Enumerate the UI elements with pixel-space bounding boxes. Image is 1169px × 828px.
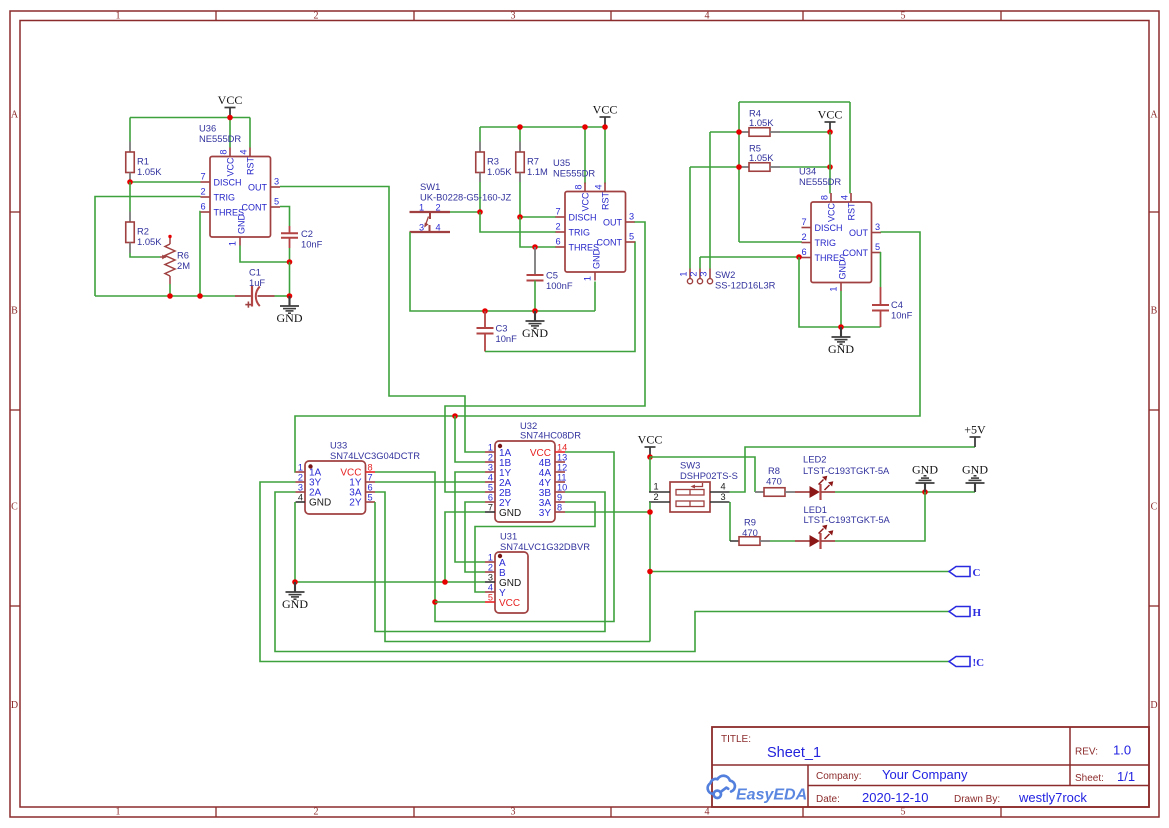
svg-text:Drawn By:: Drawn By: xyxy=(954,794,1000,805)
svg-text:2: 2 xyxy=(200,187,205,197)
led LED2 xyxy=(795,491,810,493)
svg-text:6: 6 xyxy=(368,483,373,493)
wire VCC rail circuit 1 xyxy=(130,117,250,119)
svg-text:1: 1 xyxy=(488,553,493,563)
svg-text:SW3: SW3 xyxy=(680,460,700,471)
junction VCC1 xyxy=(227,115,233,121)
svg-text:5: 5 xyxy=(368,493,373,503)
junction R6-gnd rail xyxy=(167,293,173,299)
svg-text:3: 3 xyxy=(419,223,424,233)
svg-text:C3: C3 xyxy=(496,323,508,334)
svg-text:Your Company: Your Company xyxy=(882,767,968,782)
svg-text:R6: R6 xyxy=(177,250,189,261)
svg-text:RST: RST xyxy=(846,202,856,221)
svg-text:R9: R9 xyxy=(744,517,756,528)
svg-text:8: 8 xyxy=(820,195,830,200)
svg-text:OUT: OUT xyxy=(603,218,623,228)
svg-text:SW2: SW2 xyxy=(715,269,735,280)
svg-text:LED2: LED2 xyxy=(803,454,826,465)
svg-text:4: 4 xyxy=(720,482,725,492)
svg-text:D: D xyxy=(11,700,18,711)
ground GND3 xyxy=(840,327,842,337)
junction LED gnd xyxy=(922,489,928,495)
wire ground rail circuit 1 xyxy=(95,295,235,297)
svg-text:2: 2 xyxy=(488,453,493,463)
svg-text:Sheet_1: Sheet_1 xyxy=(767,745,821,761)
svg-text:CONT: CONT xyxy=(597,238,623,248)
svg-text:SW1: SW1 xyxy=(420,181,440,192)
svg-text:OUT: OUT xyxy=(849,228,869,238)
easyeda logo xyxy=(708,776,735,798)
svg-text:GND: GND xyxy=(912,463,938,477)
wire SW3.2 net down to C xyxy=(649,502,651,642)
junction R4 right VCC3 xyxy=(827,129,833,135)
svg-text:Date:: Date: xyxy=(816,794,840,805)
wire SW1.3 to ground rail xyxy=(410,232,595,311)
ground GND logic xyxy=(294,582,296,592)
junction C5-THRES xyxy=(532,244,538,250)
wire C2 to ground rail xyxy=(289,262,291,296)
svg-text:GND: GND xyxy=(499,508,521,519)
resistor R8 xyxy=(755,491,764,493)
wire SW3.3 to R9 xyxy=(729,502,731,541)
junction R5 right xyxy=(827,164,833,170)
svg-text:VCC: VCC xyxy=(638,433,663,447)
svg-text:2: 2 xyxy=(689,271,699,276)
svg-text:6: 6 xyxy=(200,202,205,212)
ground GND4 xyxy=(924,483,926,492)
junction U33 GND net xyxy=(292,579,298,585)
svg-text:5: 5 xyxy=(629,232,634,242)
svg-text:GND: GND xyxy=(236,214,246,234)
svg-text:6: 6 xyxy=(555,237,560,247)
title block xyxy=(712,727,1149,807)
wire GND pin1 U34 xyxy=(840,291,842,327)
wire TRIG U36 xyxy=(95,197,201,297)
wire LED2 to GND xyxy=(835,491,975,493)
junction THRES-gnd rail xyxy=(197,293,203,299)
junction U32 GND net xyxy=(442,579,448,585)
junction pin8 U35 xyxy=(582,124,588,130)
svg-text:OUT: OUT xyxy=(248,183,268,193)
svg-text:EasyEDA: EasyEDA xyxy=(736,787,807,804)
svg-text:4: 4 xyxy=(594,184,604,189)
junction C flag net xyxy=(647,569,653,575)
wire CONT U36 to C2 xyxy=(280,207,290,227)
svg-text:7: 7 xyxy=(200,172,205,182)
wire U32.GND down xyxy=(445,512,485,582)
svg-text:NE555DR: NE555DR xyxy=(199,133,241,144)
wire DISCH U35 xyxy=(520,216,556,218)
wire VCC to U31.VCC xyxy=(435,601,485,603)
ground GND1 xyxy=(288,296,290,306)
wire OUT U34 long net to U33.1A xyxy=(295,232,920,472)
svg-text:DSHP02TS-S: DSHP02TS-S xyxy=(680,470,738,481)
svg-text:U34: U34 xyxy=(799,166,816,177)
svg-text:SS-12D16L3R: SS-12D16L3R xyxy=(715,280,776,291)
junction VCC2 xyxy=(602,124,608,130)
wire SW3.4 to +5V rail xyxy=(730,447,976,492)
junction U31 VCC xyxy=(432,599,438,605)
svg-text:2: 2 xyxy=(314,807,319,818)
vcc flag VCC3 xyxy=(829,122,831,132)
svg-text:7: 7 xyxy=(368,473,373,483)
svg-text:1.05K: 1.05K xyxy=(487,166,512,177)
svg-text:1: 1 xyxy=(419,203,424,213)
svg-text:1.05K: 1.05K xyxy=(749,152,774,163)
svg-text:B: B xyxy=(1151,306,1158,317)
svg-text:100nF: 100nF xyxy=(546,280,573,291)
wire GND pin1 U36 xyxy=(240,246,290,263)
wire U32.2Y to U31.B xyxy=(465,502,485,572)
wire U33.2A to H route xyxy=(275,492,949,652)
wire DISCH U36 xyxy=(130,181,201,183)
junction C2-pin1 xyxy=(287,259,293,265)
svg-text:UK-B0228-G5-160-JZ: UK-B0228-G5-160-JZ xyxy=(420,192,511,203)
resistor R4 xyxy=(710,131,739,133)
junction C3 rail xyxy=(482,308,488,314)
svg-text:4: 4 xyxy=(298,493,303,503)
svg-text:SN74HC08DR: SN74HC08DR xyxy=(520,430,581,441)
capacitor C3 xyxy=(484,311,486,328)
svg-text:8: 8 xyxy=(557,503,562,513)
wire U33.2Y to U32.3B xyxy=(375,492,605,632)
wire VCC4 to R8 xyxy=(650,457,755,492)
svg-text:10nF: 10nF xyxy=(496,333,518,344)
svg-text:GND: GND xyxy=(962,463,988,477)
wire pin8 U35 xyxy=(584,127,586,184)
svg-text:2: 2 xyxy=(555,222,560,232)
wire pin4 U36 xyxy=(249,118,251,148)
junction gnd rail circuit3 xyxy=(838,324,844,330)
junction R7-DISCH xyxy=(517,214,523,220)
svg-text:11: 11 xyxy=(557,473,567,483)
svg-text:NE555DR: NE555DR xyxy=(799,176,841,187)
svg-text:DISCH: DISCH xyxy=(569,213,597,223)
svg-text:3: 3 xyxy=(875,222,880,232)
svg-text:DISCH: DISCH xyxy=(214,178,242,188)
switch SW3 DSHP02TS-S xyxy=(670,482,710,512)
wire U33.1Y to U32.2A xyxy=(375,481,485,483)
capacitor C5 xyxy=(534,247,536,275)
svg-text:1: 1 xyxy=(829,286,839,291)
svg-text:3Y: 3Y xyxy=(539,508,552,519)
wire VCC rail circuit 3 xyxy=(739,101,850,103)
svg-text:VCC: VCC xyxy=(499,598,520,609)
switch SW1 xyxy=(410,211,451,213)
svg-text:5: 5 xyxy=(274,197,279,207)
svg-text:TITLE:: TITLE: xyxy=(721,734,751,745)
wire U33.GND down xyxy=(294,502,296,582)
svg-text:3: 3 xyxy=(488,573,493,583)
svg-text:Company:: Company: xyxy=(816,771,862,782)
svg-text:VCC: VCC xyxy=(580,192,590,212)
wire GND pin1 U35 xyxy=(594,282,596,312)
svg-text:VCC: VCC xyxy=(225,157,235,177)
svg-text:7: 7 xyxy=(801,217,806,227)
wire OUT U36 to U32.1A xyxy=(280,187,485,453)
svg-text:2Y: 2Y xyxy=(349,498,362,509)
svg-text:VCC: VCC xyxy=(218,93,243,107)
svg-text:Sheet:: Sheet: xyxy=(1075,773,1104,784)
svg-text:LTST-C193TGKT-5A: LTST-C193TGKT-5A xyxy=(804,514,891,525)
svg-text:4: 4 xyxy=(435,223,440,233)
svg-text:4: 4 xyxy=(840,195,850,200)
svg-text:GND: GND xyxy=(309,498,331,509)
net flag !C xyxy=(949,657,970,667)
svg-text:A: A xyxy=(11,110,19,121)
svg-text:REV:: REV: xyxy=(1075,747,1098,758)
svg-text:3: 3 xyxy=(274,177,279,187)
svg-text:C4: C4 xyxy=(891,299,903,310)
svg-text:R8: R8 xyxy=(768,465,780,476)
svg-text:3: 3 xyxy=(298,483,303,493)
svg-text:A: A xyxy=(1150,110,1158,121)
svg-text:VCC: VCC xyxy=(818,108,843,122)
svg-text:10nF: 10nF xyxy=(301,239,323,250)
resistor R9 xyxy=(739,537,760,546)
svg-text:1.05K: 1.05K xyxy=(137,236,162,247)
svg-text:NE555DR: NE555DR xyxy=(553,168,595,179)
svg-text:1: 1 xyxy=(116,807,121,818)
junction R7 top xyxy=(517,124,523,130)
vcc flag VCC2 xyxy=(604,117,606,127)
svg-text:TRIG: TRIG xyxy=(815,238,837,248)
led LED1 xyxy=(770,540,795,542)
svg-text:VCC: VCC xyxy=(593,103,618,117)
svg-text:!C: !C xyxy=(973,657,985,669)
wire R7 to THRES U35 xyxy=(520,217,556,247)
svg-text:5: 5 xyxy=(901,807,906,818)
svg-text:7: 7 xyxy=(555,207,560,217)
svg-text:8: 8 xyxy=(574,184,584,189)
resistor R5 xyxy=(690,166,739,168)
wire branch to U32.1B xyxy=(455,416,485,462)
capacitor C2 xyxy=(289,226,291,233)
svg-text:R3: R3 xyxy=(487,156,499,167)
svg-text:C: C xyxy=(11,502,18,513)
svg-text:5: 5 xyxy=(488,483,493,493)
svg-text:SN74LVC1G32DBVR: SN74LVC1G32DBVR xyxy=(500,541,590,552)
vcc flag VCC4 xyxy=(649,447,651,457)
svg-text:1.05K: 1.05K xyxy=(137,166,162,177)
capacitor C4 xyxy=(880,287,882,305)
wire U32.3A to U31.Y xyxy=(475,502,595,592)
svg-text:RST: RST xyxy=(600,191,610,210)
svg-text:3: 3 xyxy=(511,807,516,818)
op-amp U36 NE555DR xyxy=(210,157,271,238)
svg-text:RST: RST xyxy=(245,156,255,175)
svg-text:2020-12-10: 2020-12-10 xyxy=(862,790,929,805)
wire VCC rail circuit 2 xyxy=(480,126,605,128)
svg-text:2M: 2M xyxy=(177,260,190,271)
wire TRIG U34 xyxy=(739,241,802,243)
wire LED1 to gnd junction xyxy=(835,492,925,541)
svg-text:DISCH: DISCH xyxy=(815,223,843,233)
svg-text:VCC: VCC xyxy=(826,202,836,222)
svg-text:C2: C2 xyxy=(301,228,313,239)
svg-text:1: 1 xyxy=(679,271,689,276)
svg-text:1.1M: 1.1M xyxy=(527,166,548,177)
svg-text:5: 5 xyxy=(901,11,906,22)
svg-text:U35: U35 xyxy=(553,157,570,168)
wire SW1.2 to R3 xyxy=(450,211,480,213)
switch SW2 xyxy=(689,167,691,269)
svg-text:+5V: +5V xyxy=(964,423,986,437)
junction VCC4 xyxy=(647,454,653,460)
wire GND net to U31.GND xyxy=(295,581,485,583)
junction THRES U34 xyxy=(796,254,802,260)
wire U33.VCC net xyxy=(375,452,614,622)
net flag C xyxy=(949,567,970,577)
wire THRES to ground rail xyxy=(799,257,881,327)
wire CONT U34 to C4 xyxy=(880,252,882,287)
svg-text:3: 3 xyxy=(629,212,634,222)
junction R5 left xyxy=(736,164,742,170)
svg-text:1.05K: 1.05K xyxy=(749,117,774,128)
svg-text:5: 5 xyxy=(875,242,880,252)
net flag H xyxy=(949,607,970,617)
svg-text:5: 5 xyxy=(488,593,493,603)
svg-text:3: 3 xyxy=(488,463,493,473)
wire THRES U34 xyxy=(700,256,802,258)
junction SW3.2-3Y xyxy=(647,509,653,515)
svg-text:4: 4 xyxy=(705,11,710,22)
svg-text:12: 12 xyxy=(557,463,567,473)
svg-text:2: 2 xyxy=(653,492,658,502)
svg-text:1uF: 1uF xyxy=(249,277,265,288)
wire pin8 U34 xyxy=(829,132,831,194)
chip U31 SN74LVC1G32DBVR xyxy=(495,552,528,613)
wire pin4 U35 xyxy=(604,127,606,184)
svg-text:C: C xyxy=(1151,502,1158,513)
resistor R2 xyxy=(129,182,131,212)
svg-text:H: H xyxy=(973,607,982,619)
wire TRIG U35 xyxy=(480,212,556,232)
wire C flag xyxy=(650,571,949,573)
svg-text:GND: GND xyxy=(837,259,847,280)
svg-text:3: 3 xyxy=(699,271,709,276)
svg-text:2: 2 xyxy=(435,203,440,213)
junction C5 rail xyxy=(532,308,538,314)
svg-text:13: 13 xyxy=(557,453,567,463)
svg-text:1.0: 1.0 xyxy=(1113,743,1131,758)
wire left drop to R4 xyxy=(738,102,740,242)
svg-text:R7: R7 xyxy=(527,156,539,167)
svg-text:C: C xyxy=(973,567,981,579)
op-amp U34 NE555DR xyxy=(811,202,872,283)
wire U32.1Y to U31.A xyxy=(455,472,485,562)
svg-text:1: 1 xyxy=(653,482,658,492)
ground GND2 xyxy=(534,311,536,321)
junction gnd rail circuit1 xyxy=(287,293,293,299)
svg-text:8: 8 xyxy=(368,463,373,473)
svg-text:GND: GND xyxy=(828,342,854,356)
svg-text:1: 1 xyxy=(298,463,303,473)
svg-text:10: 10 xyxy=(557,483,567,493)
svg-text:U36: U36 xyxy=(199,123,216,134)
wire U32.3Y to SW3 net xyxy=(565,511,650,513)
op-amp U35 NE555DR xyxy=(565,192,626,273)
wire U33.3Y to !C flag xyxy=(260,482,949,662)
resistor R3 xyxy=(479,127,481,142)
svg-text:R1: R1 xyxy=(137,156,149,167)
svg-text:1/1: 1/1 xyxy=(1117,769,1135,784)
resistor R7 xyxy=(519,127,521,142)
svg-text:TRIG: TRIG xyxy=(214,193,236,203)
chip U33 SN74LVC3G04DCTR xyxy=(305,461,366,514)
svg-text:1: 1 xyxy=(488,443,493,453)
svg-text:CONT: CONT xyxy=(242,203,268,213)
svg-text:8: 8 xyxy=(219,149,229,154)
svg-text:2: 2 xyxy=(801,232,806,242)
svg-text:westly7rock: westly7rock xyxy=(1018,790,1087,805)
svg-text:LTST-C193TGKT-5A: LTST-C193TGKT-5A xyxy=(803,465,890,476)
svg-text:C5: C5 xyxy=(546,270,558,281)
junction R1-DISCH xyxy=(127,179,133,185)
svg-text:D: D xyxy=(1150,700,1157,711)
svg-text:GND: GND xyxy=(591,249,601,270)
wire U33.3A to C route xyxy=(375,492,650,642)
wire VCC4 to SW3.1 xyxy=(649,457,651,492)
wire OUT U35 to U32.2B xyxy=(445,222,645,492)
svg-text:7: 7 xyxy=(488,503,493,513)
svg-text:1: 1 xyxy=(583,276,593,281)
svg-text:GND: GND xyxy=(522,326,548,340)
svg-text:SN74LVC3G04DCTR: SN74LVC3G04DCTR xyxy=(330,450,420,461)
vcc flag VCC1 xyxy=(229,108,231,118)
svg-text:4: 4 xyxy=(488,473,493,483)
svg-text:U31: U31 xyxy=(500,531,517,542)
power flag +5V xyxy=(974,437,976,447)
svg-text:GND: GND xyxy=(282,597,308,611)
svg-text:470: 470 xyxy=(766,476,782,487)
junction R4 left xyxy=(736,129,742,135)
svg-text:2: 2 xyxy=(488,563,493,573)
svg-text:2: 2 xyxy=(314,11,319,22)
svg-text:2: 2 xyxy=(298,473,303,483)
svg-text:U33: U33 xyxy=(330,440,347,451)
svg-text:6: 6 xyxy=(801,247,806,257)
svg-text:9: 9 xyxy=(557,493,562,503)
svg-text:3: 3 xyxy=(720,492,725,502)
svg-text:R2: R2 xyxy=(137,226,149,237)
svg-text:10nF: 10nF xyxy=(891,310,913,321)
svg-text:4: 4 xyxy=(705,807,710,818)
wire C3 to CONT U35 xyxy=(485,242,635,352)
wire R2 to R6 wiper xyxy=(130,253,160,257)
wire THRES U36 xyxy=(199,212,202,297)
svg-text:4: 4 xyxy=(488,583,493,593)
svg-text:470: 470 xyxy=(742,527,758,538)
svg-text:B: B xyxy=(11,306,18,317)
svg-text:4: 4 xyxy=(239,149,249,154)
svg-text:1: 1 xyxy=(116,11,121,22)
resistor R1 xyxy=(129,118,131,142)
svg-text:6: 6 xyxy=(488,493,493,503)
junction OUT3 net xyxy=(452,413,458,419)
junction R3-SW1 xyxy=(477,209,483,215)
svg-text:GND: GND xyxy=(277,311,303,325)
wire pin8 U36 xyxy=(229,118,231,148)
svg-text:CONT: CONT xyxy=(843,248,869,258)
capacitor C1 xyxy=(235,295,251,297)
svg-text:1: 1 xyxy=(228,241,238,246)
wire pin4 U34 xyxy=(849,102,851,194)
chip U32 SN74HC08DR xyxy=(495,441,555,522)
ground GND5 xyxy=(974,483,976,492)
svg-text:TRIG: TRIG xyxy=(569,228,591,238)
